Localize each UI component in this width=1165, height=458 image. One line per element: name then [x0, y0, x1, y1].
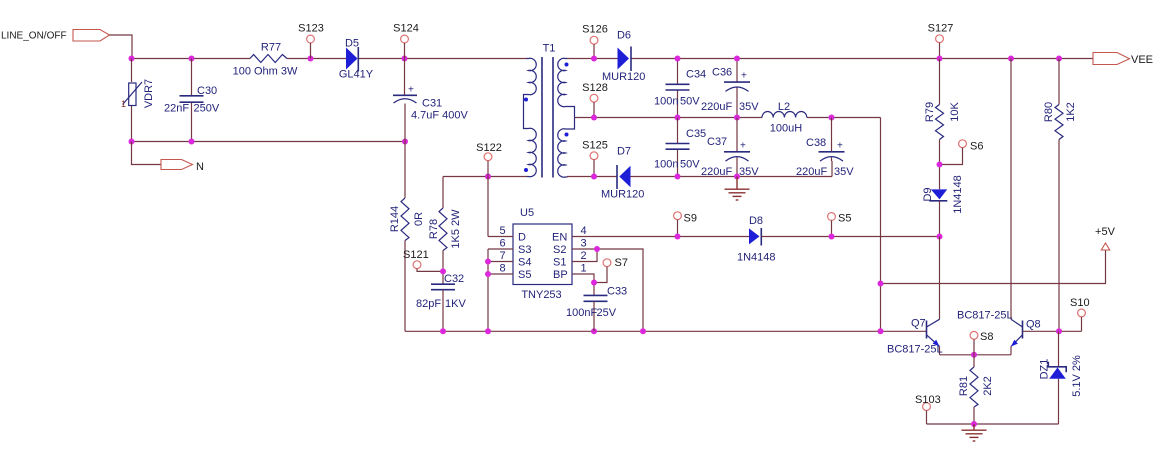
svg-text:D8: D8: [749, 215, 763, 227]
wire mid-left rail: [132, 141, 406, 143]
wire port to corner: [110, 35, 133, 59]
junction S125: [591, 174, 597, 180]
capacitor C32: [416, 273, 466, 331]
svg-text:S125: S125: [582, 140, 608, 152]
diode D5: [339, 38, 374, 81]
capacitor C37: [701, 118, 759, 179]
svg-text:2K2: 2K2: [982, 376, 994, 396]
inductor L2: [762, 101, 807, 135]
wire D pin up to transformer: [487, 177, 489, 237]
svg-text:L2: L2: [778, 101, 790, 113]
port LINE_ON/OFF: [1, 30, 110, 42]
svg-text:S103: S103: [915, 394, 941, 406]
svg-text:D7: D7: [617, 146, 631, 158]
wire L2 node down: [880, 118, 882, 332]
junction S5: [829, 234, 835, 240]
svg-text:7: 7: [499, 250, 505, 262]
svg-text:10K: 10K: [949, 102, 961, 122]
U5 pin 7: [488, 250, 513, 262]
junction S2 bottom: [640, 328, 646, 334]
svg-text:U5: U5: [520, 207, 534, 219]
capacitor C33: [566, 286, 627, 332]
svg-text:+: +: [741, 71, 747, 82]
wire Q8 base line: [1023, 330, 1082, 332]
junction C37 bottom: [734, 174, 740, 180]
svg-text:S121: S121: [403, 249, 429, 261]
svg-text:BC817-25L: BC817-25L: [887, 344, 943, 356]
svg-text:C38: C38: [806, 137, 826, 149]
junction pin2/pin3: [594, 246, 600, 252]
resistor R81: [958, 355, 994, 424]
junction C34 top: [675, 56, 681, 62]
svg-text:250V: 250V: [194, 103, 220, 115]
junction Q8 collector top: [1008, 56, 1014, 62]
svg-text:D5: D5: [345, 38, 359, 50]
svg-text:C37: C37: [707, 136, 727, 148]
svg-text:100n: 100n: [654, 96, 678, 108]
testpoint S5: [828, 213, 852, 237]
svg-text:C36: C36: [712, 67, 732, 79]
svg-text:50V: 50V: [680, 159, 700, 171]
svg-text:5.1V 2%: 5.1V 2%: [1071, 355, 1083, 397]
svg-text:35V: 35V: [739, 101, 759, 113]
testpoint S126: [582, 24, 608, 59]
svg-text:S5: S5: [838, 213, 851, 225]
testpoint S121: [403, 249, 443, 271]
svg-text:S6: S6: [970, 141, 983, 153]
testpoint S122: [476, 142, 502, 177]
testpoint S6: [940, 140, 984, 165]
svg-text:1K2: 1K2: [1065, 102, 1077, 122]
junction mid-left: [129, 139, 135, 145]
svg-text:S124: S124: [393, 23, 419, 35]
svg-text:100nF: 100nF: [566, 307, 597, 319]
junction bus bottom: [485, 328, 491, 334]
wire secondary top rail: [567, 58, 1093, 60]
svg-text:C34: C34: [686, 69, 706, 81]
svg-text:C30: C30: [197, 85, 217, 97]
resistor R77: [233, 42, 298, 78]
svg-text:S7: S7: [615, 257, 628, 269]
resistor R79: [924, 59, 961, 190]
svg-text:S127: S127: [928, 23, 954, 35]
resistor R80: [1043, 59, 1077, 332]
T1 primary winding bottom: [527, 128, 537, 176]
svg-text:+5V: +5V: [1095, 226, 1116, 238]
junction S6: [937, 162, 943, 168]
testpoint S10: [1070, 297, 1090, 331]
junction bus pin8: [485, 271, 491, 277]
svg-text:1KV: 1KV: [445, 298, 466, 310]
capacitor C31: [393, 59, 469, 142]
wire secondary bottom rail: [567, 161, 832, 177]
svg-text:S9: S9: [684, 213, 697, 225]
T1 secondary tap bracket: [566, 107, 575, 130]
resistor R78: [428, 177, 462, 285]
node S124 junction: [402, 56, 408, 62]
wire top-left rail: [132, 58, 528, 60]
junction C32 bottom: [440, 328, 446, 334]
svg-text:TNY253: TNY253: [521, 289, 561, 301]
junction VDR7 top: [129, 56, 135, 62]
T1 secondary winding bottom: [558, 129, 568, 177]
junction bus pin7: [485, 259, 491, 265]
port N: [132, 142, 205, 174]
svg-text:R81: R81: [958, 376, 970, 396]
junction C30 bottom: [189, 139, 195, 145]
junction S122: [485, 174, 491, 180]
U5 pin 2: [572, 249, 597, 262]
port VEE: [1093, 53, 1153, 67]
svg-text:T1: T1: [543, 43, 556, 55]
svg-text:5: 5: [499, 225, 505, 237]
svg-text:0R: 0R: [413, 212, 425, 226]
T1 primary winding top: [527, 58, 537, 94]
U5 pin 4: [572, 225, 749, 237]
testpoint S9: [674, 212, 697, 237]
svg-text:BC817-25L: BC817-25L: [957, 310, 1013, 322]
svg-text:R79: R79: [924, 102, 936, 122]
testpoint S128: [582, 82, 608, 118]
junction R80 top: [1056, 56, 1062, 62]
wire ground line: [927, 423, 1059, 425]
testpoint S125: [582, 140, 608, 177]
ground below C37: [725, 177, 750, 201]
varistor VDR7: [121, 59, 155, 142]
capacitor C34: [654, 59, 706, 118]
wire +5V feed: [881, 250, 1106, 284]
svg-text:S1: S1: [553, 257, 566, 269]
junction C34 bottom: [675, 115, 681, 121]
wire primary bottom: [443, 176, 527, 178]
diode D8: [737, 215, 940, 264]
svg-text:100uH: 100uH: [770, 123, 802, 135]
junction C33 bottom: [591, 328, 597, 334]
T1 polarity dot secondary upper: [565, 63, 569, 67]
capacitor C36: [701, 59, 759, 118]
wire secondary mid rail: [575, 117, 881, 119]
transistor Q7: [887, 318, 943, 356]
junction C31 bottom: [402, 139, 408, 145]
svg-text:1K5 2W: 1K5 2W: [450, 209, 462, 249]
svg-text:82pF: 82pF: [416, 298, 441, 310]
IC U5 TNY253: [513, 207, 572, 301]
svg-text:8: 8: [499, 263, 505, 275]
svg-text:D6: D6: [617, 30, 631, 42]
svg-text:2: 2: [580, 250, 586, 262]
svg-text:1: 1: [580, 263, 586, 275]
node S123 junction: [308, 56, 314, 62]
junction C36 top: [734, 56, 740, 62]
svg-text:S4: S4: [518, 257, 531, 269]
svg-text:D: D: [518, 232, 526, 244]
svg-text:BP: BP: [553, 269, 568, 281]
svg-text:VEE: VEE: [1131, 54, 1153, 66]
svg-text:1N4148: 1N4148: [952, 175, 964, 214]
svg-text:S122: S122: [476, 142, 502, 154]
transformer T1: [524, 43, 575, 178]
svg-text:C35: C35: [686, 128, 706, 140]
svg-text:Q7: Q7: [911, 318, 926, 330]
svg-text:3: 3: [580, 238, 586, 250]
ground below R81: [962, 424, 987, 441]
svg-text:S126: S126: [582, 24, 608, 36]
T1 polarity dot secondary lower: [565, 133, 569, 137]
svg-text:N: N: [196, 161, 204, 173]
diode D9: [922, 175, 964, 236]
testpoint S124: [393, 23, 419, 59]
svg-text:4: 4: [580, 225, 586, 237]
svg-text:25V: 25V: [597, 307, 617, 319]
svg-text:MUR120: MUR120: [601, 189, 644, 201]
svg-text:6: 6: [499, 238, 505, 250]
svg-text:+: +: [408, 85, 414, 96]
svg-text:S3: S3: [518, 244, 531, 256]
capacitor C35: [654, 118, 706, 177]
svg-text:35V: 35V: [739, 166, 759, 178]
T1 primary series bracket: [524, 95, 529, 129]
svg-text:R78: R78: [428, 219, 440, 239]
svg-text:220uF: 220uF: [701, 166, 732, 178]
svg-text:EN: EN: [552, 232, 567, 244]
svg-text:C33: C33: [607, 286, 627, 298]
U5 pin 8: [488, 263, 513, 275]
svg-text:S8: S8: [980, 331, 993, 343]
svg-text:S128: S128: [582, 82, 608, 94]
svg-text:50V: 50V: [680, 96, 700, 108]
junction S9: [675, 234, 681, 240]
junction S7: [591, 280, 597, 286]
junction L2 right: [829, 115, 835, 121]
junction S126: [591, 56, 597, 62]
T1 core: [541, 57, 543, 178]
junction S121: [440, 268, 446, 274]
svg-text:R144: R144: [389, 206, 401, 232]
svg-text:220uF: 220uF: [796, 166, 827, 178]
svg-text:+: +: [740, 141, 746, 152]
zener DZ1: [1039, 331, 1084, 424]
testpoint S7: [594, 257, 628, 283]
resistor R144: [389, 142, 425, 332]
junction C30 top: [189, 56, 195, 62]
junction S127: [937, 56, 943, 62]
junction DZ1 / R80 bottom: [1056, 328, 1062, 334]
svg-text:C31: C31: [422, 98, 442, 110]
junction L2-node bottom: [878, 328, 884, 334]
diode D6: [602, 30, 645, 84]
wire emitter link: [940, 354, 1012, 356]
svg-text:+: +: [837, 141, 843, 152]
svg-text:R77: R77: [261, 42, 281, 54]
wire source bus: [487, 249, 489, 331]
junction S8/R81: [971, 352, 977, 358]
svg-text:Q8: Q8: [1026, 319, 1041, 331]
svg-text:C32: C32: [444, 273, 464, 285]
testpoint S103: [915, 394, 941, 424]
U5 pin 6: [488, 238, 513, 250]
junction EN right end: [937, 234, 943, 240]
junction R81 bottom: [971, 421, 977, 427]
svg-text:LINE_ON/OFF: LINE_ON/OFF: [1, 31, 67, 42]
svg-text:22nF: 22nF: [164, 103, 189, 115]
wire Q7 collector: [939, 237, 941, 320]
testpoint S127: [928, 23, 954, 59]
svg-text:S5: S5: [518, 269, 531, 281]
transistor Q8: [957, 59, 1041, 355]
svg-text:100 Ohm 3W: 100 Ohm 3W: [233, 66, 298, 78]
svg-text:R80: R80: [1043, 102, 1055, 122]
wire bottom rail: [405, 330, 927, 332]
power symbol +5V: [1095, 226, 1116, 250]
junction +5V tap: [878, 281, 884, 287]
svg-text:MUR120: MUR120: [602, 71, 645, 83]
junction C35 bottom: [675, 174, 681, 180]
svg-text:GL41Y: GL41Y: [339, 69, 374, 81]
svg-text:S123: S123: [298, 23, 324, 35]
svg-text:S10: S10: [1070, 297, 1090, 309]
svg-text:S2: S2: [553, 244, 566, 256]
T1 polarity dot primary upper: [524, 98, 528, 102]
svg-text:35V: 35V: [834, 166, 854, 178]
svg-text:1: 1: [121, 99, 126, 109]
testpoint S123: [298, 23, 324, 59]
T1 secondary winding top: [558, 58, 568, 106]
diode D7: [601, 146, 644, 201]
testpoint S8: [970, 331, 993, 355]
svg-text:1N4148: 1N4148: [737, 252, 776, 264]
U5 pin 3: [572, 238, 643, 332]
junction C36 bottom: [734, 115, 740, 121]
svg-text:100n: 100n: [654, 159, 678, 171]
capacitor C38: [796, 118, 854, 179]
capacitor C30: [164, 59, 220, 142]
U5 pin 5: [488, 225, 513, 237]
svg-text:DZ1: DZ1: [1039, 359, 1051, 380]
svg-text:4.7uF 400V: 4.7uF 400V: [411, 110, 469, 122]
svg-text:D9: D9: [922, 187, 934, 201]
junction S128: [591, 115, 597, 121]
T1 polarity dot primary lower: [524, 168, 528, 172]
svg-text:VDR7: VDR7: [143, 79, 155, 108]
U5 pin 1: [572, 263, 594, 296]
svg-text:220uF: 220uF: [701, 101, 732, 113]
